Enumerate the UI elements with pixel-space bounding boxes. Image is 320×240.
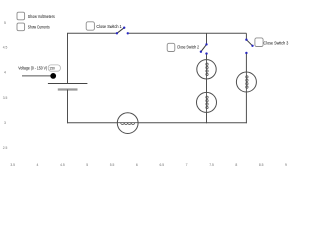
switch S3 (open) blade bbox=[246, 40, 252, 46]
svg-text:2.5: 2.5 bbox=[3, 146, 8, 150]
svg-text:4.5: 4.5 bbox=[3, 45, 8, 49]
checkbox Show Currents bbox=[17, 23, 50, 31]
svg-text:Close Switch 2: Close Switch 2 bbox=[177, 44, 200, 49]
lamp L2 circle bbox=[197, 60, 216, 79]
wire top-left vertical (battery to top wire) bbox=[67, 33, 69, 83]
svg-text:4: 4 bbox=[4, 70, 6, 74]
svg-text:3.5: 3.5 bbox=[3, 96, 8, 100]
switch S2 bottom contact dot bbox=[205, 52, 207, 54]
svg-text:Show Currents: Show Currents bbox=[28, 25, 50, 30]
switch S2 blade tip dot bbox=[200, 51, 202, 53]
checkbox Close Switch 2 bbox=[167, 43, 199, 51]
svg-text:8.5: 8.5 bbox=[259, 163, 264, 167]
svg-text:150: 150 bbox=[49, 67, 54, 71]
bottom wire left segment bbox=[67, 122, 117, 124]
switch S2 (open) blade bbox=[201, 44, 207, 51]
wire lamp L4 to bottom wire bbox=[245, 92, 247, 123]
switch S3 top contact dot bbox=[245, 39, 247, 41]
lamp L4 filament coil bbox=[246, 76, 248, 89]
svg-text:6: 6 bbox=[136, 163, 138, 167]
wire lamp L3 to bottom wire bbox=[206, 112, 208, 123]
svg-text:7.5: 7.5 bbox=[209, 163, 214, 167]
node junction middle branch bbox=[206, 33, 208, 44]
svg-text:4: 4 bbox=[37, 163, 39, 167]
switch S1 contact dot bbox=[127, 32, 129, 34]
slider Voltage label bbox=[18, 66, 47, 71]
svg-text:4.5: 4.5 bbox=[60, 163, 65, 167]
checkbox Close Switch 1 bbox=[86, 22, 122, 30]
switch S3 blade tip dot bbox=[251, 45, 253, 47]
lamp L2 filament coil bbox=[206, 63, 208, 76]
svg-text:5.5: 5.5 bbox=[110, 163, 115, 167]
svg-text:3.5: 3.5 bbox=[10, 163, 15, 167]
slider Voltage knob bbox=[50, 73, 56, 79]
svg-text:3: 3 bbox=[4, 121, 6, 125]
switch S1 (open) blade bbox=[117, 28, 124, 34]
switch S1 blade tip dot bbox=[123, 27, 125, 29]
svg-text:5: 5 bbox=[86, 163, 88, 167]
switch S1 pivot dot bbox=[116, 32, 118, 34]
lamp L3 circle bbox=[197, 92, 217, 112]
wire top middle segment bbox=[129, 32, 246, 34]
slider Voltage value box 150 bbox=[48, 65, 60, 71]
lamp L1 filament coil bbox=[121, 123, 135, 125]
wire battery to bottom wire bbox=[67, 90, 69, 124]
checkbox Show Voltmeters bbox=[17, 12, 55, 20]
wire top left segment bbox=[67, 32, 117, 34]
checkbox Close Switch 3 bbox=[255, 38, 289, 47]
svg-text:Show Voltmeters: Show Voltmeters bbox=[28, 14, 55, 19]
lamp L1 circle bbox=[117, 113, 138, 134]
battery B1 top plate bbox=[48, 83, 88, 85]
svg-text:5: 5 bbox=[4, 21, 6, 25]
wire lamp L2 to lamp L3 bbox=[206, 79, 208, 92]
lamp L4 circle bbox=[236, 72, 256, 92]
svg-text:9: 9 bbox=[285, 163, 287, 167]
svg-text:Close Switch 1: Close Switch 1 bbox=[96, 24, 122, 29]
svg-text:8: 8 bbox=[235, 163, 237, 167]
svg-text:Close Switch 3: Close Switch 3 bbox=[264, 41, 289, 46]
battery B1 bottom plate bbox=[58, 88, 78, 90]
slider Voltage track bbox=[22, 75, 53, 77]
switch S3 bottom contact dot bbox=[245, 52, 247, 54]
switch S2 top contact dot bbox=[205, 43, 207, 45]
wire right branch corner bbox=[245, 33, 247, 39]
bottom wire right segment bbox=[138, 122, 247, 124]
svg-text:7: 7 bbox=[186, 163, 188, 167]
wire switch2 to lamp L2 bbox=[206, 55, 208, 60]
svg-text:6.5: 6.5 bbox=[160, 163, 165, 167]
wire switch3 to lamp L4 bbox=[245, 54, 247, 72]
lamp L3 filament coil bbox=[206, 96, 208, 109]
svg-text:Voltage (0 - 150 V): Voltage (0 - 150 V) bbox=[18, 66, 47, 71]
